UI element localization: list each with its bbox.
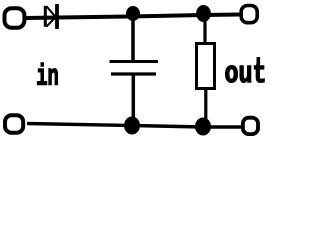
- svg-text:in: in: [36, 60, 59, 94]
- svg-text:out: out: [225, 57, 267, 92]
